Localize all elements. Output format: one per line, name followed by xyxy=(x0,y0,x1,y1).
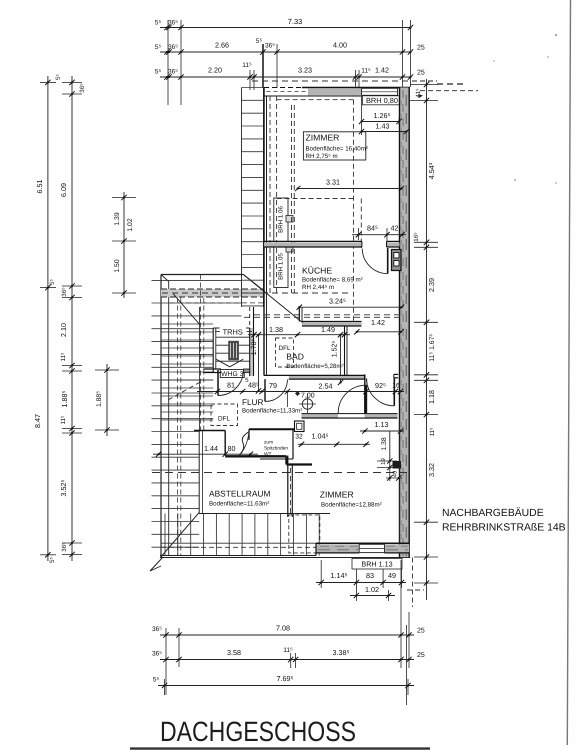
dashed line zimmer bottom xyxy=(277,198,354,200)
svg-text:3.38⁵: 3.38⁵ xyxy=(333,648,350,657)
svg-text:5⁵: 5⁵ xyxy=(153,677,160,684)
svg-text:1.38: 1.38 xyxy=(269,325,283,334)
zimmer door leaf xyxy=(365,385,367,413)
left region roof hatch lines xyxy=(152,279,242,281)
svg-text:BRH 1.05: BRH 1.05 xyxy=(278,253,285,280)
svg-text:36⁵: 36⁵ xyxy=(61,287,68,297)
svg-text:6.51: 6.51 xyxy=(35,180,44,194)
svg-text:1.02: 1.02 xyxy=(365,585,379,594)
svg-text:11⁵: 11⁵ xyxy=(283,647,293,654)
zimmer bottom west wall xyxy=(287,456,289,518)
svg-text:FLUR: FLUR xyxy=(242,398,263,407)
svg-text:REHRBRINKSTRAßE 14B: REHRBRINKSTRAßE 14B xyxy=(442,523,566,534)
svg-text:36⁵: 36⁵ xyxy=(168,20,178,27)
winder stair treads xyxy=(161,323,213,325)
dim 1.78 vertical xyxy=(258,335,260,391)
BRH 1.13 label xyxy=(352,559,402,570)
svg-text:1.02: 1.02 xyxy=(127,218,134,231)
spitzboden door curve xyxy=(238,432,250,458)
svg-text:WHG 3: WHG 3 xyxy=(221,371,243,378)
svg-text:1.42: 1.42 xyxy=(375,66,389,75)
svg-text:5⁵: 5⁵ xyxy=(55,74,62,80)
dashed 1m line mid xyxy=(162,292,352,294)
svg-text:81: 81 xyxy=(227,381,235,390)
kueche west corner wall xyxy=(298,307,300,321)
right wall gray xyxy=(400,88,410,558)
svg-text:1.52⁵: 1.52⁵ xyxy=(332,341,339,358)
top wall outline xyxy=(302,87,410,89)
svg-text:3.58: 3.58 xyxy=(227,648,241,657)
zimmer door arc xyxy=(338,385,366,413)
svg-text:16⁵: 16⁵ xyxy=(413,232,420,242)
vestibule wall vertical xyxy=(364,374,366,414)
bottom chain rowB 3.58/11.5/3.38 xyxy=(160,659,414,661)
zimmer top label box xyxy=(303,132,365,160)
shaft box 32 xyxy=(295,421,305,432)
window BRH 1.05 xyxy=(274,246,288,288)
svg-text:5⁵: 5⁵ xyxy=(256,38,263,45)
svg-text:1.43: 1.43 xyxy=(376,122,390,131)
dashed line zimmer top xyxy=(277,99,354,101)
trhs east wall xyxy=(250,328,254,376)
svg-text:Bodenfläche= 16,40m²: Bodenfläche= 16,40m² xyxy=(306,146,368,153)
left inner dim chain 1.39/1.02/1.50 xyxy=(123,192,125,298)
svg-text:2.10: 2.10 xyxy=(59,323,68,337)
svg-text:83: 83 xyxy=(366,571,374,580)
svg-text:Bodenfläche=11.63m²: Bodenfläche=11.63m² xyxy=(209,501,269,508)
right wall hatch texture xyxy=(402,90,404,556)
svg-text:2.20: 2.20 xyxy=(208,66,222,75)
svg-text:1.49: 1.49 xyxy=(321,325,335,334)
dim 3.24 xyxy=(299,306,401,308)
wall stub right of kueche door xyxy=(387,242,400,247)
svg-text:16: 16 xyxy=(392,383,400,390)
svg-text:TRHS: TRHS xyxy=(223,328,243,337)
dashed 2m line south xyxy=(152,472,410,474)
svg-text:5⁵: 5⁵ xyxy=(49,557,56,563)
bad east wall xyxy=(344,326,346,376)
dim 1.43 xyxy=(362,131,407,133)
svg-text:36⁵: 36⁵ xyxy=(152,626,162,633)
bottom chain ext lines xyxy=(165,628,167,695)
svg-text:2.54: 2.54 xyxy=(319,382,333,391)
dim 1.38/1.49 row xyxy=(248,334,350,336)
left region wall band xyxy=(161,289,264,297)
svg-text:11⁵: 11⁵ xyxy=(60,352,67,361)
bad door leaf xyxy=(264,379,266,401)
dim 84.5/42 xyxy=(352,234,406,236)
bottom page rule xyxy=(130,747,430,749)
svg-text:11⁵: 11⁵ xyxy=(361,68,371,75)
dim 3.31 xyxy=(298,188,402,190)
west roof slope strip xyxy=(241,88,243,308)
top wall gray fill xyxy=(308,88,361,95)
wall left of whg3 xyxy=(203,368,221,370)
svg-text:1.42: 1.42 xyxy=(371,318,385,327)
svg-text:KÜCHE: KÜCHE xyxy=(302,266,332,276)
top dim row1 line 7.33 xyxy=(160,27,411,29)
roof valley diagonal upper xyxy=(243,275,301,322)
svg-text:49: 49 xyxy=(388,571,396,580)
svg-text:25: 25 xyxy=(417,628,425,635)
trhs treads xyxy=(216,336,250,338)
svg-text:4.54³: 4.54³ xyxy=(427,162,436,179)
right dim chain stubs xyxy=(410,84,438,86)
window BRH 1.13 in south wall xyxy=(359,544,384,552)
bottom window dim row 1.02 xyxy=(350,595,395,597)
dim 1.52 vertical xyxy=(340,335,342,383)
roof hip diagonal lower xyxy=(160,512,199,557)
trhs west wall xyxy=(212,328,214,373)
svg-text:1.13: 1.13 xyxy=(375,420,389,429)
dashed neighbour edge bottom right xyxy=(412,558,414,608)
top wall left dashed part xyxy=(267,91,307,93)
svg-text:Spitzboden: Spitzboden xyxy=(264,446,288,452)
zimmer east inner line xyxy=(399,418,401,543)
svg-text:ABSTELLRAUM: ABSTELLRAUM xyxy=(209,489,270,499)
svg-text:42: 42 xyxy=(391,224,399,233)
svg-text:92⁵: 92⁵ xyxy=(375,381,386,390)
door 92.5 arc xyxy=(366,378,394,406)
kueche door leaf xyxy=(387,248,389,274)
svg-text:7.33: 7.33 xyxy=(288,17,302,26)
south roof hatch band xyxy=(199,513,330,515)
svg-text:5⁵: 5⁵ xyxy=(155,69,162,76)
svg-text:5⁵: 5⁵ xyxy=(155,44,162,51)
roof diagonal dashed xyxy=(168,380,204,400)
svg-text:RH 2,75⁵ m: RH 2,75⁵ m xyxy=(306,153,338,160)
svg-text:79: 79 xyxy=(269,381,277,390)
trhs direction bar xyxy=(228,341,239,361)
svg-text:8.47: 8.47 xyxy=(33,414,42,428)
svg-text:4.00: 4.00 xyxy=(333,41,347,50)
svg-text:1.18: 1.18 xyxy=(427,390,436,404)
abstellraum south line xyxy=(199,513,293,515)
flur dfl dashed box xyxy=(211,404,238,426)
dashed ridge lines xyxy=(254,314,401,316)
small ticks below shaft xyxy=(389,469,391,482)
svg-text:7.69⁵: 7.69⁵ xyxy=(277,674,294,683)
dim 1.13 xyxy=(360,430,404,432)
svg-text:25: 25 xyxy=(417,45,425,52)
svg-text:36⁵: 36⁵ xyxy=(265,43,275,50)
trhs label xyxy=(220,327,247,336)
wall zimmer-kueche xyxy=(264,242,362,247)
svg-text:11⁵: 11⁵ xyxy=(429,427,436,436)
svg-text:DFL: DFL xyxy=(218,416,231,423)
window BRH 0.80 label box xyxy=(363,96,402,105)
svg-text:6.09: 6.09 xyxy=(59,183,68,197)
chimney block xyxy=(392,250,402,271)
bad door arc xyxy=(265,380,287,402)
svg-text:BRH 1.13: BRH 1.13 xyxy=(361,560,392,569)
trhs north line xyxy=(213,327,250,329)
svg-text:NACHBARGEBÄUDE: NACHBARGEBÄUDE xyxy=(442,507,544,519)
bad dfl dashed box xyxy=(276,338,294,367)
zimmer south wall xyxy=(316,544,359,552)
scan specks xyxy=(555,34,557,36)
svg-text:ZIMMER: ZIMMER xyxy=(320,490,354,500)
svg-text:3.23: 3.23 xyxy=(298,66,312,75)
svg-text:3.32: 3.32 xyxy=(427,463,436,477)
svg-text:BRH 0,80: BRH 0,80 xyxy=(366,96,398,105)
svg-text:2.39: 2.39 xyxy=(427,278,436,292)
svg-text:Bodenfläche= 8,69 m²: Bodenfläche= 8,69 m² xyxy=(302,276,363,283)
trhs arrow chevron xyxy=(216,359,230,367)
svg-text:36⁵: 36⁵ xyxy=(61,542,68,552)
svg-text:ZIMMER: ZIMMER xyxy=(306,133,340,143)
left wall of rooms xyxy=(263,88,265,376)
svg-text:11⁵: 11⁵ xyxy=(60,415,67,424)
svg-text:BAD: BAD xyxy=(286,352,304,362)
svg-text:3.24⁵: 3.24⁵ xyxy=(329,296,346,305)
svg-text:36⁵: 36⁵ xyxy=(79,83,86,93)
abstellraum west wall xyxy=(198,431,200,514)
dim ext 1.26/1.43 xyxy=(361,96,363,135)
svg-text:RH 2,44⁵ m: RH 2,44⁵ m xyxy=(302,284,334,291)
bottom left corner wedge xyxy=(150,557,163,571)
svg-text:3.52⁵: 3.52⁵ xyxy=(59,479,68,496)
svg-text:1.44: 1.44 xyxy=(204,444,218,453)
svg-text:48⁵: 48⁵ xyxy=(248,381,259,390)
svg-text:11⁵: 11⁵ xyxy=(242,62,252,69)
left dim chain L2 xyxy=(71,76,73,561)
zimmer bottom north wall xyxy=(302,415,398,418)
roof edge dashes above top wall xyxy=(252,80,410,82)
svg-text:3.31: 3.31 xyxy=(326,178,340,187)
whg3 label box xyxy=(220,370,244,378)
svg-text:80: 80 xyxy=(228,444,236,453)
dim 1.44/80 xyxy=(153,453,258,455)
svg-text:1.88⁵: 1.88⁵ xyxy=(96,391,103,407)
svg-text:7.08: 7.08 xyxy=(276,624,290,633)
top dim extension lines xyxy=(167,20,169,105)
roof diagonal mid xyxy=(173,294,200,325)
left dim chain L1 (6.51 / 8.47) xyxy=(47,76,49,561)
svg-text:5⁵: 5⁵ xyxy=(49,279,56,285)
svg-text:Bodenfläche=5,28m²: Bodenfläche=5,28m² xyxy=(286,363,343,370)
svg-text:49: 49 xyxy=(392,471,399,477)
svg-text:11⁵ 1.67³: 11⁵ 1.67³ xyxy=(429,334,436,362)
flur dim row xyxy=(197,391,404,393)
bottom dim ext lines xyxy=(320,560,322,588)
svg-text:1.14⁵: 1.14⁵ xyxy=(331,571,348,580)
svg-text:WT: WT xyxy=(264,452,272,458)
page right edge line xyxy=(567,0,570,745)
left roof region outline xyxy=(161,274,243,276)
svg-text:84⁵: 84⁵ xyxy=(367,224,378,233)
dim 1.38 vertical right xyxy=(389,431,391,468)
svg-text:36⁵: 36⁵ xyxy=(168,69,178,76)
left region dashed verticals xyxy=(177,298,179,556)
svg-text:1.88⁵: 1.88⁵ xyxy=(60,390,69,407)
svg-text:1.50: 1.50 xyxy=(114,259,121,272)
flur north wall xyxy=(289,375,365,379)
top dim row3 line xyxy=(160,76,411,78)
svg-text:1.04⁵: 1.04⁵ xyxy=(312,432,329,441)
svg-text:36⁵: 36⁵ xyxy=(168,44,178,51)
spitzboden closet outline xyxy=(249,428,294,430)
kueche door arc xyxy=(362,249,387,274)
dashed verticals zimmer xyxy=(276,96,278,295)
abstellraum north walls xyxy=(194,430,225,432)
svg-text:32: 32 xyxy=(295,434,303,441)
svg-text:25: 25 xyxy=(417,652,425,659)
whg3 door wall stub xyxy=(243,369,249,373)
top dim row2 line xyxy=(160,51,411,53)
svg-text:1.39: 1.39 xyxy=(114,212,121,225)
wall stub 92.5 right xyxy=(394,373,398,375)
dim 1.26 xyxy=(362,121,400,123)
south wall texture xyxy=(320,545,358,547)
black shaft box right xyxy=(393,461,402,469)
svg-text:1.26⁵: 1.26⁵ xyxy=(374,111,391,120)
svg-text:25: 25 xyxy=(417,70,425,77)
bottom chain rowC 7.69 xyxy=(158,685,414,687)
whg3 door leaf xyxy=(217,370,219,396)
window BRH 1.06 xyxy=(274,198,288,242)
whg3 door arc xyxy=(218,371,243,396)
dim 1.04 xyxy=(298,443,370,445)
svg-text:36⁵: 36⁵ xyxy=(152,651,162,658)
svg-text:5⁵: 5⁵ xyxy=(155,20,162,27)
left inner dim 1.88-5 xyxy=(106,364,108,436)
svg-text:BRH 1.06: BRH 1.06 xyxy=(278,206,285,233)
bottom chain rowA 7.08 xyxy=(160,634,414,636)
svg-text:DACHGESCHOSS: DACHGESCHOSS xyxy=(160,716,356,747)
right dim chain line xyxy=(426,79,428,600)
left region solid vertical xyxy=(199,307,201,431)
dim 1.42 nook xyxy=(357,331,401,333)
svg-text:Bodenfläche=12,88m²: Bodenfläche=12,88m² xyxy=(321,502,382,509)
svg-text:Bodenfläche=11,33m²: Bodenfläche=11,33m² xyxy=(242,408,302,415)
spitzboden dashed rect xyxy=(289,515,320,553)
svg-text:1.38: 1.38 xyxy=(381,437,388,450)
svg-text:1.78⁵: 1.78⁵ xyxy=(251,339,258,356)
window BRH 0.80 in top wall xyxy=(362,88,398,95)
bottom window dim row 1.14/83/49 xyxy=(316,582,406,584)
roof overhang dashes top right xyxy=(412,80,437,82)
svg-text:zum: zum xyxy=(264,441,273,446)
door 92.5 leaf xyxy=(393,378,395,406)
wall kueche-bad xyxy=(302,323,362,327)
svg-text:2.66: 2.66 xyxy=(215,41,229,50)
